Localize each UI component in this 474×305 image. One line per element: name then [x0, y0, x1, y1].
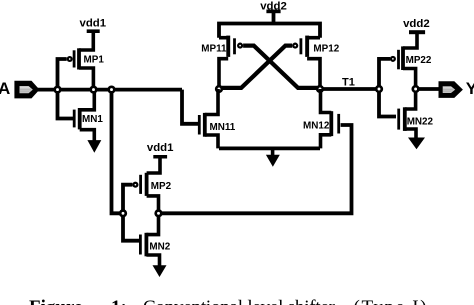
wire long vertical to MP2/MN2 gates — [112, 90, 124, 214]
wire vdd2 stem middle — [272, 12, 276, 24]
transistor MN2 — [139, 213, 160, 266]
svg-text:MN11: MN11 — [210, 122, 236, 133]
wire cross-couple MP11 gate to right drain — [243, 46, 319, 88]
wire T1 node down to MN22 gate — [379, 89, 396, 117]
ground under MN22 — [408, 138, 425, 150]
output pad Y — [439, 81, 463, 98]
wire bottom rail MN11/MN12 sources — [219, 146, 320, 150]
transistor MP11 — [219, 36, 243, 89]
wire T1 node up to MP22 bubble — [379, 59, 390, 89]
node inverter drain junction — [91, 87, 97, 93]
ground under MN2 — [153, 265, 167, 277]
svg-text:MN12: MN12 — [303, 121, 330, 132]
svg-text:vdd1: vdd1 — [80, 17, 107, 29]
transistor MP2 — [132, 158, 160, 213]
vdd1 rail lower — [153, 155, 167, 159]
wire T1 row — [320, 87, 379, 91]
transistor MP1 — [67, 32, 94, 90]
svg-text:vdd1: vdd1 — [147, 142, 174, 154]
vdd2 rail right — [409, 30, 425, 34]
svg-text:1:: 1: — [111, 297, 127, 305]
wire output node to pad Y — [416, 87, 439, 91]
node right latch drain — [317, 86, 323, 92]
wire node A down to MN1 gate — [58, 90, 74, 119]
input pad A — [14, 81, 39, 99]
svg-text:vdd2: vdd2 — [260, 0, 287, 12]
svg-text:Figure: Figure — [29, 297, 82, 305]
node MP2/MN2 gate junction — [120, 211, 126, 217]
svg-text:MN22: MN22 — [407, 116, 434, 127]
transistor MN12 — [321, 89, 341, 148]
node left latch drain — [216, 86, 222, 92]
transistor MN22 — [397, 89, 416, 139]
svg-text:vdd2: vdd2 — [403, 18, 430, 30]
transistor MN1 — [73, 90, 95, 141]
wire input row A — [37, 88, 182, 92]
wire MP2 gate column — [123, 185, 132, 214]
ground center latch — [266, 148, 280, 166]
vdd2 rail middle — [266, 10, 280, 14]
vdd1 rail top-left — [87, 29, 100, 33]
node output branch junction — [109, 87, 115, 93]
ground under MN1 — [87, 140, 101, 153]
node MP2/MN2 drain junction — [156, 211, 162, 217]
wire node A up to MP1 gate bubble — [58, 59, 67, 90]
svg-text:MP1: MP1 — [84, 54, 105, 65]
node A junction — [55, 87, 61, 93]
svg-text:Conventional level shifter: Conventional level shifter — [143, 297, 336, 305]
svg-text:Y: Y — [466, 79, 474, 98]
svg-text:MP22: MP22 — [406, 55, 432, 66]
wire MN2 gate column — [123, 213, 139, 240]
svg-text:(Type I): (Type I) — [354, 297, 427, 305]
wire inverter output to MN11 gate — [182, 90, 198, 124]
svg-text:MN2: MN2 — [149, 241, 170, 252]
node output drain junction — [413, 86, 419, 92]
wire MP2/MN2 output to MN12 gate — [159, 125, 352, 213]
svg-text:MP2: MP2 — [151, 181, 172, 192]
wire cross-couple MP12 gate to left drain — [220, 46, 292, 88]
svg-text:T1: T1 — [342, 77, 355, 89]
svg-text:MP12: MP12 — [313, 44, 339, 55]
svg-text:A: A — [0, 79, 10, 98]
transistor MP12 — [292, 36, 320, 89]
transistor MP22 — [390, 34, 417, 89]
wire top rail MP11/MP12 sources — [219, 24, 320, 38]
transistor MN11 — [198, 89, 218, 148]
node T1 gate junction — [376, 86, 382, 92]
svg-text:MP11: MP11 — [201, 44, 227, 55]
svg-text:MN1: MN1 — [82, 114, 103, 125]
